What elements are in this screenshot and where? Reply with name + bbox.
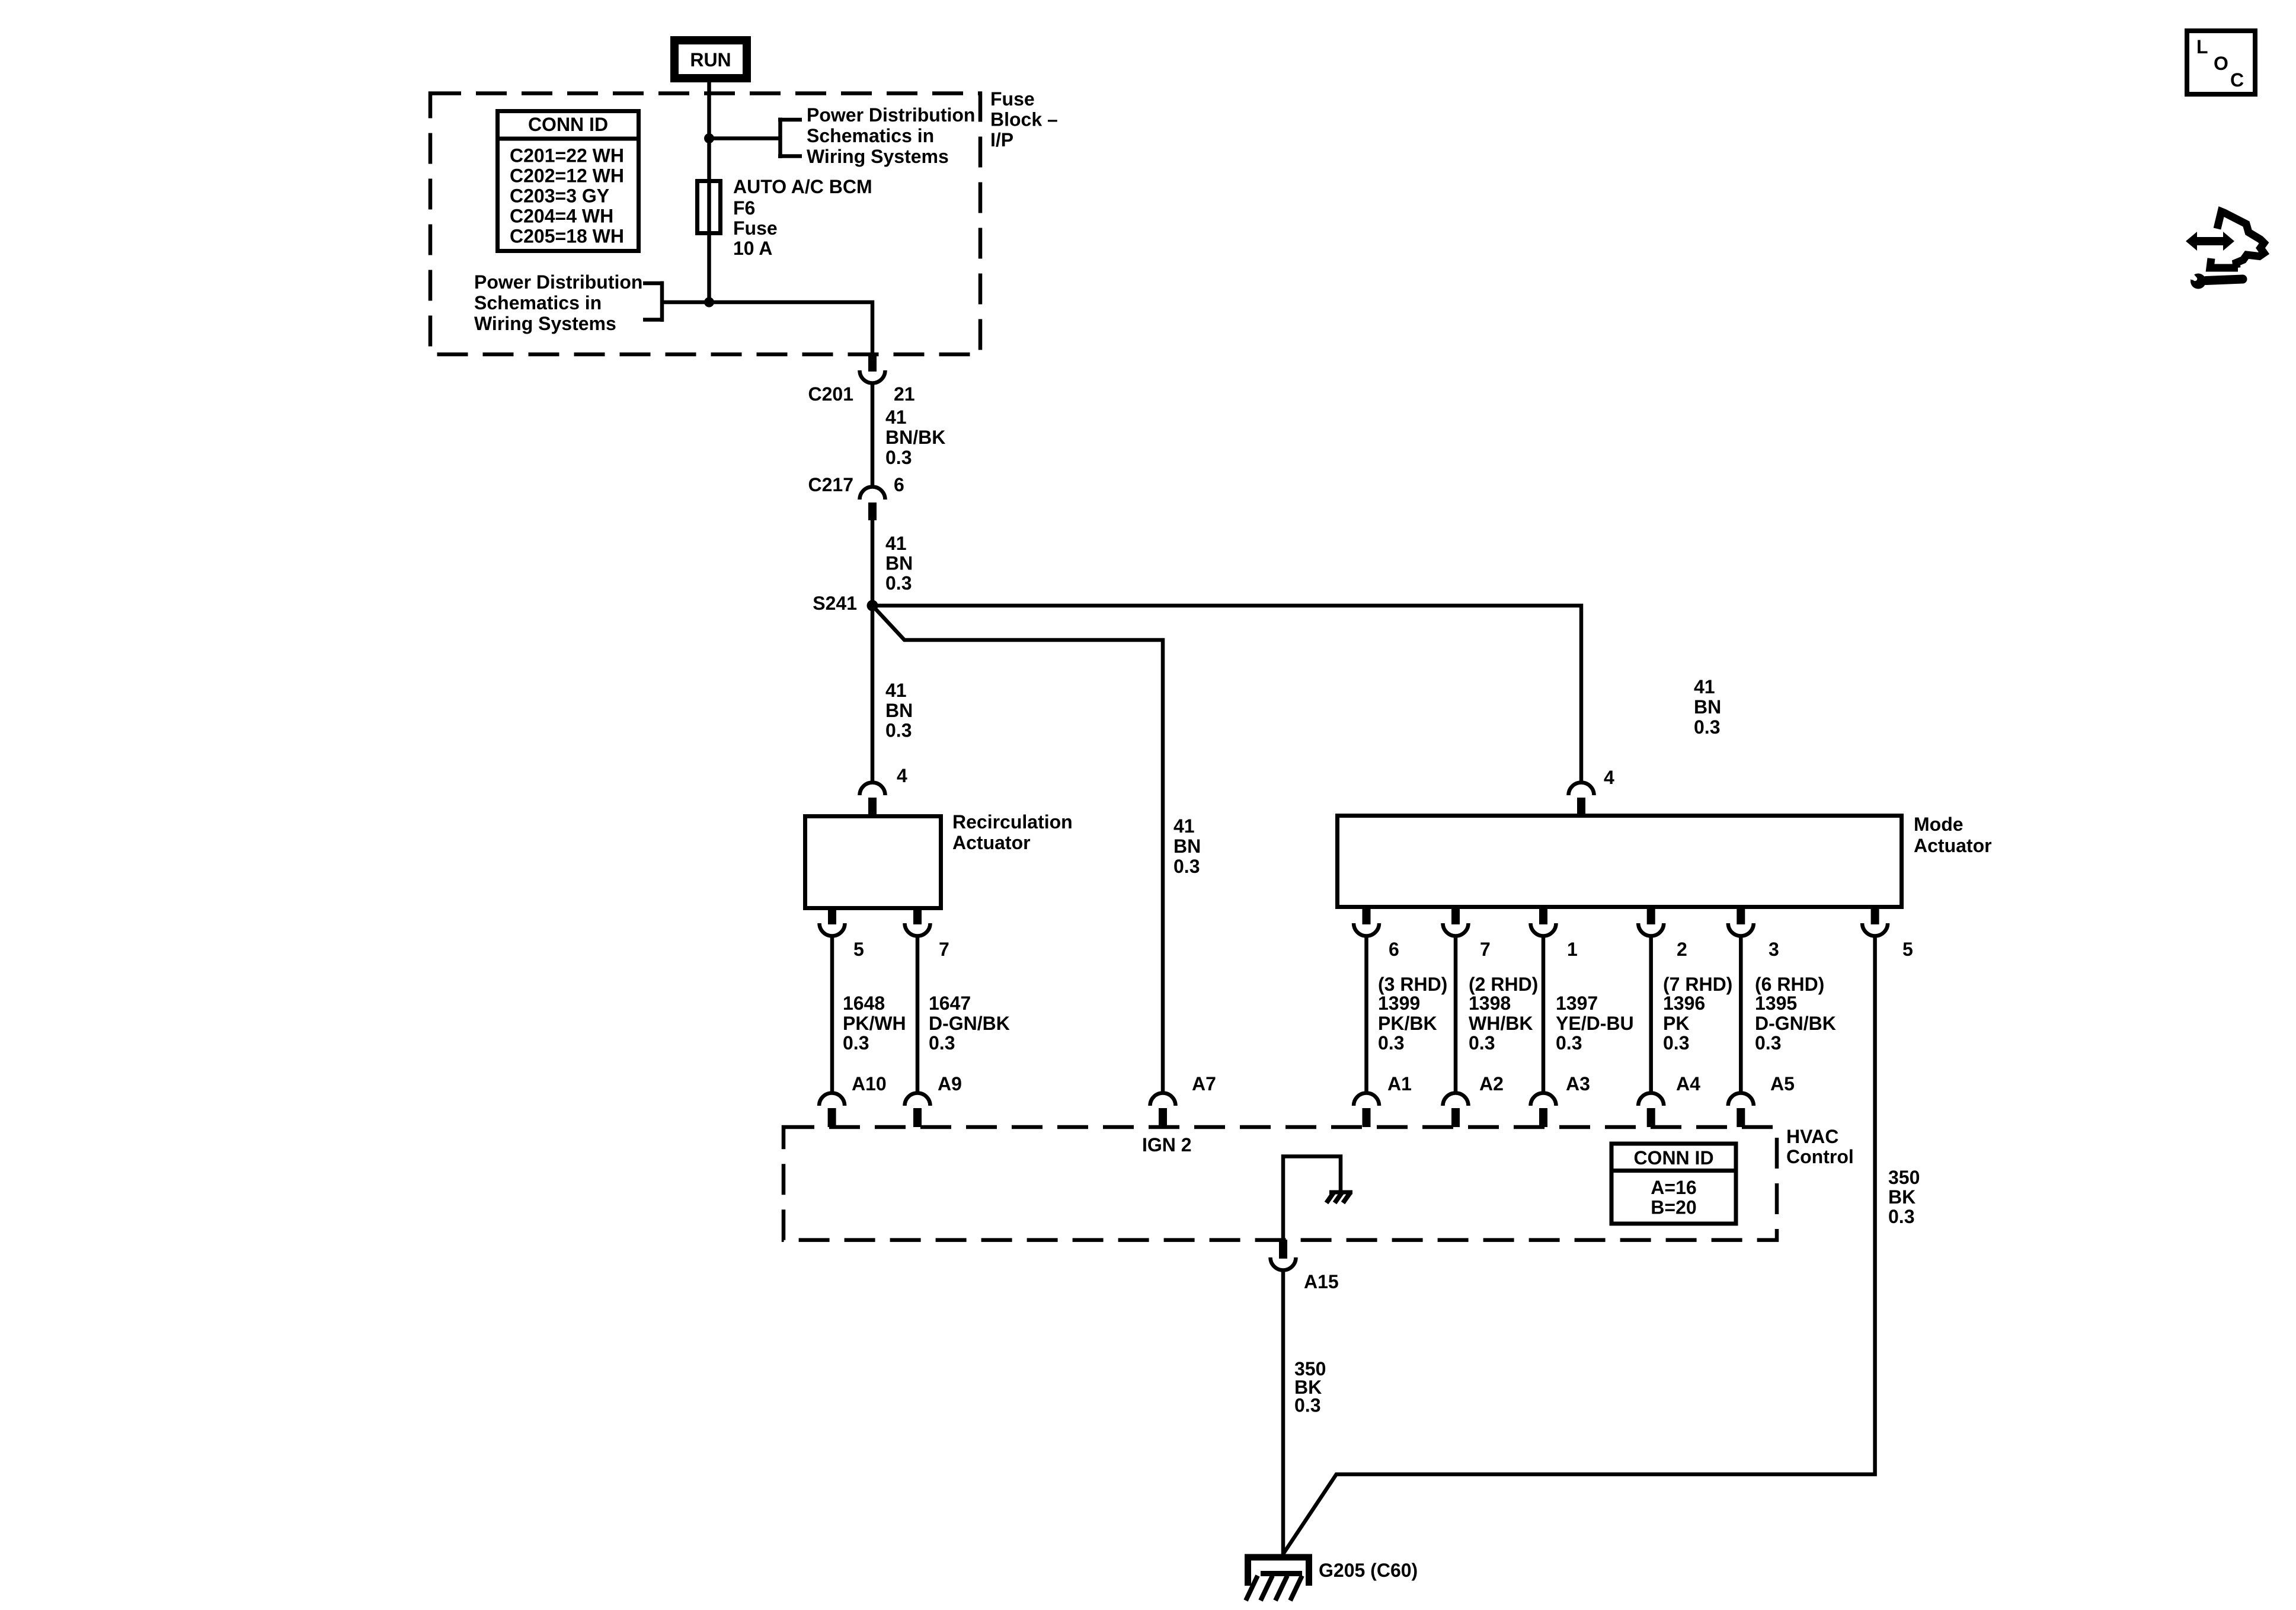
svg-text:0.3: 0.3 xyxy=(1469,1032,1495,1054)
label AUTO A/C BCM F6 Fuse 10 A xyxy=(733,176,872,259)
pin 4 label (recirc) xyxy=(897,765,907,786)
svg-text:10 A: 10 A xyxy=(733,238,772,259)
svg-text:1: 1 xyxy=(1567,939,1578,960)
label G205 (C60) xyxy=(1319,1560,1418,1581)
svg-text:6: 6 xyxy=(894,474,904,495)
wire S241 to HVAC A7 xyxy=(872,606,1163,1093)
svg-text:7: 7 xyxy=(1480,939,1491,960)
svg-text:Actuator: Actuator xyxy=(952,832,1031,853)
pin 5 label (recirc) xyxy=(853,939,864,960)
svg-text:350: 350 xyxy=(1888,1167,1920,1188)
wire mode pin to HVAC connector xyxy=(1542,936,1546,1093)
svg-text:1396: 1396 xyxy=(1663,993,1705,1014)
svg-text:A10: A10 xyxy=(852,1073,887,1094)
label IGN 2 xyxy=(1142,1134,1192,1156)
connector A4 (HVAC) xyxy=(1638,1093,1664,1128)
junction node (fuse output) xyxy=(704,297,714,308)
svg-text:BN: BN xyxy=(1694,696,1721,718)
wire S241 to recirculation actuator pin 4 xyxy=(871,606,875,783)
pin 7 label (recirc) xyxy=(939,939,949,960)
connector A3 (HVAC) xyxy=(1531,1093,1556,1128)
wire label (3 RHD) 1399 PK/BK 0.3 xyxy=(1378,974,1447,1054)
svg-text:D-GN/BK: D-GN/BK xyxy=(929,1013,1010,1034)
bracket to Power Distribution Schematics (left) xyxy=(643,281,664,322)
svg-text:A1: A1 xyxy=(1387,1073,1412,1094)
recirc pin 5 connector xyxy=(819,907,845,936)
svg-text:1397: 1397 xyxy=(1556,993,1598,1014)
connector C201 xyxy=(860,353,885,383)
label A1 xyxy=(1387,1073,1412,1094)
svg-text:(6 RHD): (6 RHD) xyxy=(1755,974,1824,995)
svg-text:41: 41 xyxy=(885,680,907,701)
svg-text:0.3: 0.3 xyxy=(1694,716,1720,738)
svg-text:0.3: 0.3 xyxy=(1755,1032,1781,1054)
wire label (7 RHD) 1396 PK 0.3 xyxy=(1663,974,1732,1054)
label S241 xyxy=(813,593,857,614)
wire mode pin to HVAC connector xyxy=(1739,936,1743,1093)
svg-text:IGN 2: IGN 2 xyxy=(1142,1134,1192,1156)
svg-text:(7 RHD): (7 RHD) xyxy=(1663,974,1732,995)
pin 3 label (mode) xyxy=(1769,939,1779,960)
svg-text:A3: A3 xyxy=(1566,1073,1590,1094)
svg-text:0.3: 0.3 xyxy=(1663,1032,1689,1054)
wire A15 to G205 xyxy=(1281,1270,1285,1554)
wire mode pin to HVAC connector xyxy=(1649,936,1653,1093)
connector A9 (HVAC) xyxy=(905,1093,930,1128)
splice S241 xyxy=(867,600,878,612)
svg-text:Schematics in: Schematics in xyxy=(474,292,602,313)
svg-text:C205=18 WH: C205=18 WH xyxy=(510,226,624,247)
connector A5 (HVAC) xyxy=(1728,1093,1754,1128)
svg-text:21: 21 xyxy=(894,383,915,405)
wire mode pin5 to G205 xyxy=(1283,936,1875,1554)
LOC reference icon xyxy=(2187,31,2255,94)
pin 2 label (mode) xyxy=(1677,939,1687,960)
wire mode pin to HVAC connector xyxy=(1364,936,1368,1093)
svg-text:41: 41 xyxy=(885,406,907,428)
svg-text:BN: BN xyxy=(885,700,913,721)
svg-text:AUTO A/C BCM: AUTO A/C BCM xyxy=(733,176,872,197)
svg-text:PK/WH: PK/WH xyxy=(843,1013,906,1034)
svg-text:Block –: Block – xyxy=(990,109,1058,130)
svg-text:3: 3 xyxy=(1769,939,1779,960)
HVAC control dashed box xyxy=(784,1127,1777,1240)
fuse F6 AUTO A/C BCM 10A xyxy=(698,181,721,233)
svg-text:1395: 1395 xyxy=(1755,993,1797,1014)
label A2 xyxy=(1479,1073,1504,1094)
HVAC internal ground wire xyxy=(1283,1157,1341,1240)
svg-text:1648: 1648 xyxy=(843,993,885,1014)
svg-text:Actuator: Actuator xyxy=(1914,835,1992,856)
svg-text:Mode: Mode xyxy=(1914,814,1964,835)
CONN ID table (HVAC control) xyxy=(1611,1144,1736,1224)
label C217 xyxy=(808,474,854,495)
pin 7 label (mode) xyxy=(1480,939,1491,960)
svg-text:(2 RHD): (2 RHD) xyxy=(1469,974,1538,995)
svg-text:BK: BK xyxy=(1888,1186,1916,1208)
wire label 41 BN/BK 0.3 xyxy=(885,406,945,468)
svg-text:Power Distribution: Power Distribution xyxy=(474,271,642,293)
mode pin 2 connector xyxy=(1638,905,1664,936)
svg-text:F6: F6 xyxy=(733,197,755,219)
svg-text:O: O xyxy=(2214,53,2228,74)
wire label (2 RHD) 1398 WH/BK 0.3 xyxy=(1469,974,1538,1054)
svg-text:RUN: RUN xyxy=(690,49,731,71)
svg-text:7: 7 xyxy=(939,939,949,960)
svg-text:C: C xyxy=(2230,69,2244,91)
svg-text:(3 RHD): (3 RHD) xyxy=(1378,974,1447,995)
mode actuator box xyxy=(1338,816,1902,907)
svg-text:Fuse: Fuse xyxy=(990,88,1035,110)
svg-text:5: 5 xyxy=(853,939,864,960)
fuse block I/P dashed box xyxy=(430,94,980,355)
connector A1 (HVAC) xyxy=(1354,1093,1379,1128)
svg-text:0.3: 0.3 xyxy=(885,572,912,594)
svg-text:0.3: 0.3 xyxy=(1888,1206,1914,1227)
wire recirc pin5 to A10 xyxy=(830,936,834,1093)
svg-text:0.3: 0.3 xyxy=(1556,1032,1582,1054)
svg-text:41: 41 xyxy=(885,533,907,554)
svg-text:BN/BK: BN/BK xyxy=(885,427,945,448)
mode pin 1 connector xyxy=(1531,905,1556,936)
svg-text:A9: A9 xyxy=(938,1073,962,1094)
svg-text:G205 (C60): G205 (C60) xyxy=(1319,1560,1418,1581)
mode pin 3 connector xyxy=(1728,905,1754,936)
wire mode pin to HVAC connector xyxy=(1454,936,1458,1093)
chassis ground symbol (HVAC internal) xyxy=(1326,1192,1352,1203)
label A10 xyxy=(852,1073,887,1094)
svg-text:0.3: 0.3 xyxy=(929,1032,955,1054)
wire label 1397 YE/D-BU 0.3 xyxy=(1556,993,1634,1054)
connector A10 (HVAC) xyxy=(819,1093,845,1128)
label Fuse Block - I/P xyxy=(990,88,1058,151)
label A9 xyxy=(938,1073,962,1094)
svg-text:A=16: A=16 xyxy=(1651,1177,1696,1198)
connector A2 (HVAC) xyxy=(1443,1093,1469,1128)
recirculation actuator box xyxy=(805,817,941,908)
label Power Distribution Schematics in Wiring Systems (right) xyxy=(807,104,975,167)
mode pin 7 connector xyxy=(1443,905,1469,936)
svg-text:1647: 1647 xyxy=(929,993,971,1014)
service information icon (double arrow, component outline, wrench) xyxy=(2186,212,2264,289)
svg-text:2: 2 xyxy=(1677,939,1687,960)
wire label 1647 D-GN/BK 0.3 xyxy=(929,993,1010,1054)
svg-text:A5: A5 xyxy=(1770,1073,1795,1094)
wire S241 to mode actuator pin 4 xyxy=(872,606,1581,783)
svg-text:41: 41 xyxy=(1173,815,1195,837)
svg-text:Recirculation: Recirculation xyxy=(952,811,1073,833)
wire label 41 BN 0.3 (recirc branch) xyxy=(885,680,913,741)
label A7 xyxy=(1192,1073,1216,1094)
pin 6 label (mode) xyxy=(1389,939,1399,960)
wire label 41 BN 0.3 (mode branch) xyxy=(1694,676,1721,738)
svg-text:1399: 1399 xyxy=(1378,993,1420,1014)
wire label 350 BK 0.3 (right) xyxy=(1888,1167,1920,1227)
connector A7 (HVAC) xyxy=(1150,1093,1176,1128)
label C201 xyxy=(808,383,854,405)
svg-text:0.3: 0.3 xyxy=(1173,856,1200,877)
svg-text:C204=4 WH: C204=4 WH xyxy=(510,206,613,227)
pin 1 label (mode) xyxy=(1567,939,1578,960)
label Recirculation Actuator xyxy=(952,811,1073,853)
svg-text:L: L xyxy=(2196,36,2208,57)
svg-text:0.3: 0.3 xyxy=(1378,1032,1404,1054)
svg-text:5: 5 xyxy=(1902,939,1913,960)
wire bracket-junction-right-down to C201 xyxy=(662,302,872,356)
svg-text:BN: BN xyxy=(885,553,913,574)
wire recirc pin7 to A9 xyxy=(916,936,920,1093)
svg-text:CONN ID: CONN ID xyxy=(1633,1147,1713,1169)
svg-text:C202=12 WH: C202=12 WH xyxy=(510,165,624,187)
svg-text:C201: C201 xyxy=(808,383,854,405)
bracket to Power Distribution Schematics (right) xyxy=(778,118,802,159)
connector pin 4 (recirc) xyxy=(860,783,885,817)
svg-text:HVAC: HVAC xyxy=(1786,1126,1838,1147)
svg-text:B=20: B=20 xyxy=(1651,1197,1696,1218)
svg-text:Fuse: Fuse xyxy=(733,217,778,239)
svg-text:C201=22 WH: C201=22 WH xyxy=(510,145,624,167)
pin 5 label (mode) xyxy=(1902,939,1913,960)
svg-text:WH/BK: WH/BK xyxy=(1469,1013,1533,1034)
svg-text:S241: S241 xyxy=(813,593,857,614)
connector A15 xyxy=(1271,1240,1296,1270)
svg-text:A7: A7 xyxy=(1192,1073,1216,1094)
svg-text:Power Distribution: Power Distribution xyxy=(807,104,975,126)
svg-text:PK/BK: PK/BK xyxy=(1378,1013,1437,1034)
svg-text:Schematics in: Schematics in xyxy=(807,125,934,146)
svg-text:6: 6 xyxy=(1389,939,1399,960)
CONN ID table (fuse block) xyxy=(498,111,639,251)
ground G205 (C60) xyxy=(1245,1557,1312,1601)
svg-text:A2: A2 xyxy=(1479,1073,1504,1094)
label A3 xyxy=(1566,1073,1590,1094)
ignition switch RUN box xyxy=(674,40,747,78)
wire C201 to C217 xyxy=(871,383,875,488)
label A5 xyxy=(1770,1073,1795,1094)
label A4 xyxy=(1676,1073,1700,1094)
svg-text:A4: A4 xyxy=(1676,1073,1700,1094)
svg-text:D-GN/BK: D-GN/BK xyxy=(1755,1013,1836,1034)
connector pin 4 (mode) xyxy=(1569,783,1594,817)
wire label 1648 PK/WH 0.3 xyxy=(843,993,906,1054)
wire label (6 RHD) 1395 D-GN/BK 0.3 xyxy=(1755,974,1836,1054)
label Power Distribution Schematics in Wiring Systems (left) xyxy=(474,271,642,334)
svg-text:1398: 1398 xyxy=(1469,993,1511,1014)
svg-text:0.3: 0.3 xyxy=(885,447,912,468)
svg-text:4: 4 xyxy=(897,765,907,786)
svg-text:Wiring Systems: Wiring Systems xyxy=(807,146,949,167)
svg-text:41: 41 xyxy=(1694,676,1715,697)
svg-text:YE/D-BU: YE/D-BU xyxy=(1556,1013,1634,1034)
svg-text:C203=3 GY: C203=3 GY xyxy=(510,185,609,207)
pin 4 label (mode) xyxy=(1604,767,1614,788)
svg-text:4: 4 xyxy=(1604,767,1614,788)
wire C217 to S241 xyxy=(871,520,875,606)
label Mode Actuator xyxy=(1914,814,1992,856)
connector C217 xyxy=(860,487,885,521)
recirc pin 7 connector xyxy=(905,907,930,936)
junction node (RUN feed) xyxy=(704,133,714,143)
wire RUN to fuse junctions and F6 fuse xyxy=(707,82,711,302)
wire junction to power distribution bracket (right) xyxy=(709,136,781,140)
svg-text:I/P: I/P xyxy=(990,129,1013,151)
svg-text:0.3: 0.3 xyxy=(1294,1395,1320,1416)
pin 21 label xyxy=(894,383,915,405)
svg-text:A15: A15 xyxy=(1304,1271,1339,1292)
wire label 41 BN 0.3 (C217-S241) xyxy=(885,533,913,594)
svg-text:Wiring Systems: Wiring Systems xyxy=(474,313,616,334)
mode pin 6 connector xyxy=(1354,905,1379,936)
svg-text:Control: Control xyxy=(1786,1146,1854,1167)
svg-text:0.3: 0.3 xyxy=(843,1032,869,1054)
label A15 xyxy=(1304,1271,1339,1292)
svg-text:BN: BN xyxy=(1173,836,1201,857)
svg-text:CONN ID: CONN ID xyxy=(528,114,608,135)
wire label 41 BN 0.3 (A7 branch) xyxy=(1173,815,1201,877)
label HVAC Control xyxy=(1786,1126,1854,1167)
pin 6 label xyxy=(894,474,904,495)
wire label 350 BK 0.3 (A15) xyxy=(1294,1358,1326,1416)
svg-text:0.3: 0.3 xyxy=(885,720,912,741)
mode pin 5 connector xyxy=(1862,905,1888,936)
svg-text:PK: PK xyxy=(1663,1013,1689,1034)
svg-text:C217: C217 xyxy=(808,474,854,495)
